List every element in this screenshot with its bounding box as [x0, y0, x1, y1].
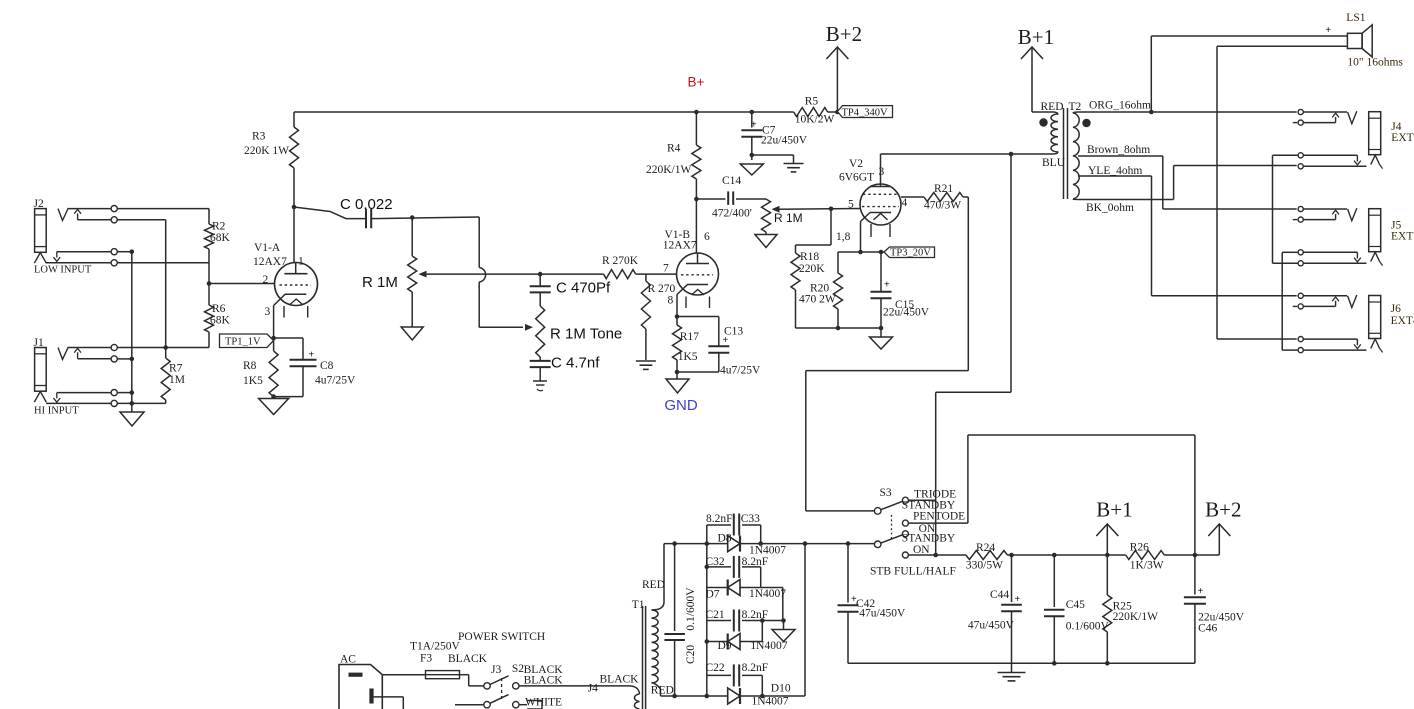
svg-text:Brown_8ohm: Brown_8ohm [1087, 144, 1150, 156]
svg-text:C22: C22 [706, 662, 725, 674]
svg-text:C44: C44 [990, 589, 1009, 601]
input jack J1 body and contacts [34, 347, 209, 402]
junction plate line [1009, 152, 1014, 157]
svg-text:8.2nF: 8.2nF [742, 556, 769, 568]
svg-text:B+2: B+2 [826, 22, 862, 46]
wire to C 0.022 [294, 207, 366, 219]
svg-text:C45: C45 [1066, 599, 1085, 611]
V1-B plate [686, 253, 709, 264]
V1-A cathode [274, 294, 307, 338]
AC plug outline [339, 665, 382, 709]
V2 grid dashes [862, 206, 899, 208]
svg-text:J1: J1 [34, 337, 44, 349]
capacitor C22 loop [707, 675, 763, 696]
svg-text:3: 3 [265, 306, 271, 318]
svg-text:47u/450V: 47u/450V [859, 608, 906, 620]
svg-text:TP4_340V: TP4_340V [842, 108, 889, 119]
junction C470 top [538, 272, 543, 277]
switch S3 lower pole [874, 535, 902, 548]
triode V1-B envelope [677, 253, 719, 295]
diode D10 [707, 688, 805, 704]
B+1 arrow top [1018, 25, 1054, 112]
junction J2 shorting to ground bus [130, 249, 135, 254]
neutral terminal box [527, 701, 542, 709]
wire BK 0ohm tap [1078, 166, 1297, 200]
resistor R20 [834, 252, 843, 328]
svg-text:330/5W: 330/5W [966, 560, 1003, 572]
wire V2 plate to OT [881, 153, 1054, 155]
svg-text:EXT 8: EXT 8 [1391, 231, 1414, 243]
svg-text:+: + [751, 120, 757, 131]
wire fuse to switch [460, 675, 484, 686]
junction D10 row [672, 694, 764, 699]
svg-text:1N4007: 1N4007 [750, 640, 787, 652]
wire triode contact [909, 499, 936, 501]
svg-text:R24: R24 [976, 542, 995, 554]
junction speaker feed [1149, 110, 1154, 115]
resistor R26 [1126, 551, 1165, 560]
test point TP4_340V flag [837, 106, 892, 118]
svg-text:1: 1 [298, 256, 304, 268]
svg-text:1N4007: 1N4007 [752, 696, 789, 708]
junction grid tap [207, 281, 212, 286]
svg-text:+: + [1015, 594, 1021, 605]
junction V1-B cathode [675, 314, 680, 319]
svg-text:C21: C21 [706, 609, 725, 621]
V1-B heater [686, 290, 710, 309]
wire R5 to TP4 [828, 111, 838, 113]
junction V2 cathode [858, 250, 863, 255]
switch S2 lower [455, 695, 527, 708]
capacitor C33 loop [707, 525, 761, 544]
resistor R 270K [604, 270, 636, 279]
B+2 arrow bottom [1195, 524, 1230, 555]
svg-text:68K: 68K [210, 232, 231, 244]
ground symbol V2 cathode [870, 328, 893, 349]
junction diode bus top left [705, 541, 710, 546]
svg-text:S2: S2 [512, 663, 524, 675]
svg-text:472/400': 472/400' [712, 208, 752, 220]
svg-text:STANDBY: STANDBY [902, 533, 956, 545]
junctions ground rail [1052, 661, 1110, 666]
resistor R17 [673, 317, 682, 373]
svg-text:+: + [1198, 586, 1204, 597]
svg-text:6: 6 [704, 231, 710, 243]
capacitor C 0.022 [366, 209, 371, 229]
wire R3 to plate [293, 168, 295, 263]
resistor R24 [966, 551, 1008, 560]
junction B+ rail R4 [694, 110, 699, 115]
svg-text:R 270K: R 270K [602, 255, 639, 267]
R1M wiper arrow [419, 271, 604, 278]
J1 sleeve down-arrow [53, 393, 60, 403]
junction TP4 node [835, 110, 840, 115]
svg-text:R5: R5 [805, 96, 819, 108]
V1-B grid dashes [681, 274, 713, 276]
diode D8 [707, 536, 740, 552]
capacitor C22 [734, 664, 739, 686]
svg-text:D7: D7 [706, 589, 720, 601]
ground symbol C7 triangle [740, 164, 763, 175]
J2 sleeve down-arrow [53, 252, 60, 262]
resistor R4 [692, 112, 701, 253]
svg-text:220K 1W: 220K 1W [244, 145, 289, 157]
junction C21 right [760, 618, 786, 623]
svg-text:D9: D9 [718, 640, 732, 652]
V1-A plate [284, 263, 307, 274]
wire triode feed [936, 154, 1011, 555]
svg-text:1K/3W: 1K/3W [1130, 560, 1164, 572]
wire J2 tip to R2 [208, 209, 210, 224]
svg-text:8.2nF: 8.2nF [742, 662, 769, 674]
diode D9 [707, 634, 763, 650]
svg-text:J2: J2 [34, 198, 44, 210]
svg-text:0.1/600V: 0.1/600V [1066, 621, 1110, 633]
rectifier output rail [664, 543, 874, 545]
wire C 0.022 to pot [372, 217, 480, 219]
svg-text:R21: R21 [934, 183, 953, 195]
svg-text:R4: R4 [667, 143, 681, 155]
svg-text:1K5: 1K5 [243, 375, 263, 387]
V2 screen dashes [863, 193, 898, 195]
svg-text:C20: C20 [685, 645, 697, 664]
svg-text:0.1/600V: 0.1/600V [685, 587, 697, 631]
svg-text:12AX7: 12AX7 [663, 240, 697, 252]
svg-text:T1A/250V: T1A/250V [410, 641, 461, 653]
wire C7 bottom [751, 137, 753, 155]
svg-text:1,8: 1,8 [836, 231, 851, 243]
B+ rail bottom [1007, 554, 1195, 556]
capacitor C13 [708, 335, 729, 353]
capacitor C14 [728, 191, 733, 205]
svg-text:R17: R17 [680, 331, 699, 343]
svg-text:T1: T1 [632, 599, 645, 611]
svg-text:5: 5 [848, 199, 854, 211]
svg-text:WHITE: WHITE [525, 697, 562, 709]
capacitor C 4.7nf [530, 361, 551, 367]
svg-text:3: 3 [879, 166, 885, 178]
V1-B cathode [677, 285, 708, 317]
svg-text:C 0.022: C 0.022 [340, 196, 393, 213]
junction B+1 node [1105, 553, 1110, 558]
junction V1-A cathode node [271, 336, 276, 341]
ext jack J4 [1293, 109, 1383, 168]
V1-A heater [284, 299, 308, 318]
potentiometer R1M V2 grid [762, 199, 771, 235]
svg-text:22u/450V: 22u/450V [761, 135, 808, 147]
svg-text:B+1: B+1 [1096, 498, 1132, 522]
svg-text:POWER SWITCH: POWER SWITCH [458, 631, 545, 643]
speaker LS1 [1217, 25, 1372, 57]
svg-text:ORG_16ohm: ORG_16ohm [1089, 100, 1151, 112]
capacitor C46 [1184, 555, 1206, 663]
wire YLE 4ohm tap [1078, 176, 1297, 296]
svg-text:47u/450V: 47u/450V [968, 620, 1015, 632]
capacitor C21 [734, 610, 739, 632]
svg-text:BK_0ohm: BK_0ohm [1086, 202, 1134, 214]
junction C45 node [1052, 553, 1057, 558]
AC neutral wire [372, 697, 404, 709]
capacitor C33 [734, 514, 739, 536]
V1-A grid dashes [280, 284, 312, 286]
svg-text:STB FULL/HALF: STB FULL/HALF [870, 566, 956, 578]
junctions on ground bus [130, 357, 135, 406]
svg-text:BLACK: BLACK [524, 675, 564, 687]
svg-text:4: 4 [902, 197, 908, 209]
pentode V2 envelope [860, 184, 901, 225]
capacitor C7 [741, 120, 762, 137]
AC prong neutral [369, 689, 373, 704]
svg-text:V2: V2 [849, 158, 863, 170]
R1M V2 wiper arrow [772, 206, 861, 213]
junction D8 out [758, 541, 807, 546]
svg-text:C 470Pf: C 470Pf [556, 280, 611, 297]
svg-text:470 2W: 470 2W [799, 294, 836, 306]
resistor R2 [205, 224, 214, 249]
ground bus wire [131, 252, 133, 412]
ground rail bottom [848, 662, 1195, 664]
switch S2 upper [484, 676, 519, 689]
svg-text:2: 2 [263, 274, 269, 286]
svg-text:J6: J6 [1391, 303, 1401, 315]
S3 dotted link [891, 515, 893, 541]
resistor R3 [290, 127, 299, 168]
svg-text:AC: AC [340, 654, 356, 666]
potentiometer R 1M Tone [536, 293, 545, 361]
svg-text:+: + [1325, 25, 1331, 36]
svg-text:C13: C13 [724, 326, 743, 338]
wire C7 stub [751, 155, 753, 160]
ext jack J5 [1293, 206, 1383, 266]
svg-text:12AX7: 12AX7 [253, 256, 287, 268]
rotated label 0.1/600V [685, 587, 697, 631]
wire R7 bottom [165, 400, 167, 403]
svg-text:4u7/25V: 4u7/25V [315, 375, 356, 387]
J1 shorting contact upper [57, 392, 132, 394]
svg-text:C 4.7nf: C 4.7nf [551, 355, 600, 372]
earth ground PSU [998, 663, 1026, 685]
wire R6 to J1 tip row [208, 332, 210, 348]
wire J2 ring to R7 bus [117, 219, 165, 221]
earth ground symbol [784, 164, 804, 172]
wire J2 sleeve row [46, 262, 209, 264]
contact circles J1 lower [111, 390, 117, 407]
capacitor C32 loop [707, 567, 761, 588]
wire R270K to grid [636, 273, 677, 275]
wire B+1 to primary [1032, 111, 1053, 113]
V2 heater [871, 214, 890, 238]
svg-text:8.2nF: 8.2nF [706, 513, 733, 525]
B+ rail [294, 111, 794, 113]
B+1 arrow bottom [1096, 524, 1118, 555]
wire C14 right [736, 198, 766, 200]
capacitor C15 [871, 252, 892, 328]
svg-text:RED: RED [1041, 101, 1064, 113]
ground symbol V1-B cathode [666, 372, 689, 393]
junction C15 top [879, 250, 884, 255]
svg-text:1N4007: 1N4007 [749, 588, 786, 600]
wire to earth ground [752, 155, 794, 163]
svg-text:B+2: B+2 [1205, 498, 1241, 522]
wire speaker minus [1217, 46, 1297, 339]
transformer T2 core [1064, 108, 1068, 199]
junction D9 left [705, 639, 710, 644]
wire R3 top lead [293, 112, 295, 127]
diode D7 [707, 580, 761, 596]
svg-text:BLACK: BLACK [448, 653, 488, 665]
capacitor C32 [734, 556, 739, 578]
ground symbol tone [533, 381, 547, 391]
capacitor C 470Pf [530, 286, 551, 292]
wire switch to T1 [519, 685, 630, 687]
wire grid V1-A [209, 283, 275, 285]
wire screen loop [806, 197, 969, 511]
cathode ground rail [796, 327, 882, 329]
junction C14 tap [694, 197, 699, 202]
svg-text:LOW INPUT: LOW INPUT [34, 265, 92, 276]
svg-text:BLU: BLU [1042, 157, 1066, 169]
junction C44 node [1009, 553, 1014, 558]
test point TP1_1V flag [220, 334, 274, 348]
AC live wire [382, 674, 425, 676]
contact circles J2 upper [111, 206, 117, 223]
capacitor C8 [290, 350, 317, 367]
junction C32 left [705, 565, 710, 570]
ext jack J6 [1293, 293, 1383, 353]
S3 contacts [902, 497, 908, 558]
junction R18 tap [829, 207, 834, 212]
junction ON node [933, 553, 938, 558]
T1 primary winding [630, 686, 640, 709]
svg-text:R 1M: R 1M [774, 211, 803, 225]
svg-text:C14: C14 [722, 175, 741, 187]
wire J1 ring to ground bus [117, 358, 132, 360]
wire Brown 8ohm tap [1078, 156, 1297, 209]
svg-text:R26: R26 [1130, 542, 1149, 554]
input jack J2 body and tip/ring contacts [34, 208, 209, 263]
svg-text:10" 16ohms: 10" 16ohms [1347, 57, 1403, 69]
capacitor C13 loop [677, 317, 719, 373]
wire R7 bus vertical [165, 220, 167, 358]
junction cathode rail [836, 326, 884, 331]
left diode bus [706, 544, 708, 696]
capacitor C20 [664, 544, 685, 696]
svg-text:C33: C33 [741, 513, 760, 525]
triode V1-A envelope [275, 263, 318, 306]
ground symbol V1-A cathode [259, 399, 289, 415]
wire to speaker plus [1151, 36, 1347, 112]
test point TP3_20V flag [884, 247, 935, 258]
ground symbol rectifier mid [772, 621, 795, 642]
right diode bus [804, 544, 806, 696]
svg-text:R7: R7 [169, 363, 183, 375]
V2 cathode [861, 213, 892, 253]
svg-text:RED: RED [651, 685, 674, 697]
junction J1 tip / R7 [163, 345, 168, 350]
svg-text:V1-A: V1-A [254, 242, 281, 254]
capacitor C42 [838, 544, 859, 664]
junction B+2 node [1193, 553, 1198, 558]
junction C7 tap [750, 110, 755, 115]
svg-text:TP3_20V: TP3_20V [890, 248, 931, 259]
svg-text:T2: T2 [1069, 101, 1082, 113]
junction R3/plate/coupling [292, 205, 297, 210]
ground symbol volume pot [401, 327, 423, 340]
transformer T1 core [643, 606, 646, 709]
svg-text:B+: B+ [688, 75, 705, 90]
junction volume pot top [410, 215, 415, 220]
svg-text:10K/2W: 10K/2W [795, 114, 835, 126]
svg-text:D8: D8 [718, 533, 732, 545]
svg-text:7: 7 [663, 263, 669, 275]
svg-text:R2: R2 [212, 221, 226, 233]
capacitor C8 loop [274, 338, 303, 397]
svg-text:J3: J3 [491, 664, 501, 676]
rectifier bottom rail [661, 695, 707, 697]
svg-text:ON: ON [913, 544, 930, 556]
capacitor C21 loop [707, 620, 763, 622]
junction C20 top [672, 541, 677, 546]
wire ON contact to R24 [909, 554, 966, 556]
wire J1 sleeve row [46, 402, 166, 404]
contact circles J2 lower [111, 249, 117, 266]
resistor R5 [794, 108, 828, 117]
svg-text:F3: F3 [420, 653, 432, 665]
resistor R 270 [641, 274, 650, 360]
svg-text:6V6GT: 6V6GT [839, 172, 874, 184]
svg-text:C46: C46 [1198, 623, 1217, 635]
tone wiper arrow [525, 324, 533, 331]
rotated label C20 [685, 645, 697, 664]
resistor R6 [205, 305, 214, 332]
svg-text:TP1_1V: TP1_1V [225, 337, 261, 348]
svg-text:S3: S3 [880, 487, 892, 499]
wire cathode rail [838, 251, 884, 253]
svg-text:R18: R18 [800, 251, 819, 263]
S2 dashed link [501, 678, 503, 702]
J2 shorting contact upper [57, 251, 132, 253]
wire C7 top [751, 112, 753, 128]
resistor R25 [1103, 555, 1112, 663]
resistor R8 [269, 338, 278, 397]
svg-text:68K: 68K [210, 315, 231, 327]
svg-text:+: + [309, 350, 315, 361]
resistor R7 [161, 358, 170, 400]
wire C21 to D9 [761, 621, 763, 642]
svg-text:EXT 1: EXT 1 [1391, 132, 1414, 144]
wire R2 to R6 [208, 249, 210, 305]
svg-text:B+1: B+1 [1018, 25, 1054, 49]
transformer T2 secondary [1073, 112, 1079, 200]
svg-text:BLACK: BLACK [600, 674, 640, 686]
resistor R18 [791, 209, 831, 328]
svg-text:C8: C8 [320, 360, 334, 372]
ground symbol R270 [636, 361, 656, 369]
junction R17 bottom [675, 370, 680, 375]
svg-text:8: 8 [668, 295, 674, 307]
svg-text:HI INPUT: HI INPUT [34, 406, 79, 417]
wire pentode loop [909, 435, 1195, 555]
ground symbol input bus [120, 412, 144, 426]
svg-text:220K/1W: 220K/1W [1113, 611, 1159, 623]
wire secondary top [663, 544, 665, 602]
svg-text:+: + [884, 280, 890, 291]
wire C470 top [539, 274, 541, 286]
svg-text:D10: D10 [771, 683, 791, 695]
svg-text:YLE_4ohm: YLE_4ohm [1088, 165, 1142, 177]
potentiometer R1M volume [408, 218, 417, 328]
ground symbol V2 grid pot [755, 235, 777, 248]
